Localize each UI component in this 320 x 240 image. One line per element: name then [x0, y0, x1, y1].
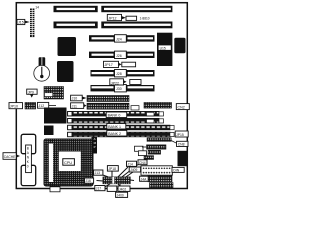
- svg-text:CACHE: CACHE: [4, 155, 16, 159]
- svg-text:BANK 0: BANK 0: [108, 113, 121, 117]
- svg-text:J4A: J4A: [141, 177, 147, 181]
- svg-text:CN2: CN2: [178, 105, 185, 109]
- svg-text:J28: J28: [116, 72, 122, 76]
- svg-text:JP18: JP18: [108, 167, 116, 171]
- svg-text:J10: J10: [72, 97, 78, 101]
- svg-text:J30: J30: [116, 87, 122, 91]
- svg-text:J14: J14: [128, 162, 133, 166]
- svg-text:B: B: [27, 147, 29, 151]
- svg-text:J400: J400: [117, 193, 124, 197]
- svg-text:J15: J15: [18, 21, 24, 25]
- svg-text:JP17: JP17: [105, 63, 113, 67]
- svg-text:J402: J402: [119, 187, 126, 191]
- svg-text:JP22: JP22: [111, 82, 119, 86]
- svg-text:0: 0: [27, 165, 29, 169]
- svg-text:J11: J11: [72, 104, 77, 108]
- svg-text:J409: J409: [130, 168, 137, 172]
- svg-text:1-8810: 1-8810: [140, 17, 150, 21]
- svg-text:JP12: JP12: [108, 16, 116, 20]
- svg-text:BANK 1: BANK 1: [108, 125, 121, 129]
- svg-text:J17: J17: [96, 187, 101, 191]
- svg-text:JP10: JP10: [10, 104, 18, 108]
- svg-text:CN4: CN4: [139, 161, 146, 165]
- svg-text:P: P: [94, 145, 96, 149]
- svg-text:U15: U15: [160, 46, 166, 50]
- svg-text:JP9: JP9: [28, 90, 34, 94]
- svg-text:DIN: DIN: [173, 169, 179, 173]
- svg-text:14: 14: [35, 5, 39, 9]
- svg-text:CN8: CN8: [178, 143, 185, 147]
- svg-text:J16: J16: [86, 179, 91, 183]
- svg-text:CPU: CPU: [64, 161, 72, 165]
- svg-text:J13: J13: [95, 171, 100, 175]
- svg-text:J24: J24: [116, 37, 122, 41]
- svg-text:BANK 2: BANK 2: [108, 132, 121, 136]
- svg-text:JP15: JP15: [176, 133, 184, 137]
- svg-text:J26: J26: [116, 54, 122, 58]
- svg-text:J12: J12: [39, 104, 45, 108]
